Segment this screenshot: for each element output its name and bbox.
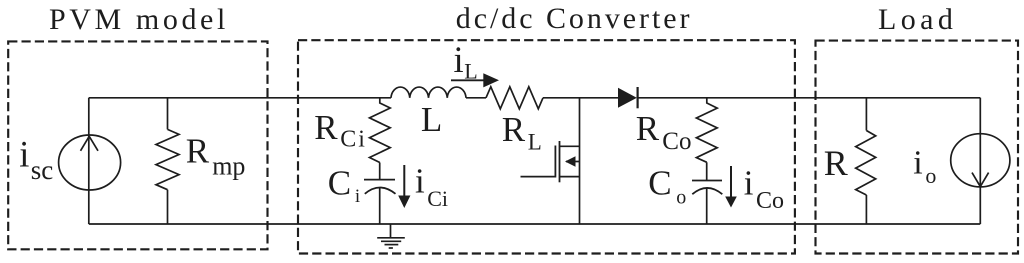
svg-text:Co: Co (756, 188, 784, 214)
svg-text:L: L (421, 100, 442, 139)
svg-text:Ci: Ci (427, 186, 448, 211)
svg-text:Co: Co (662, 128, 691, 155)
svg-text:sc: sc (31, 155, 54, 185)
svg-text:R: R (824, 143, 848, 183)
svg-text:R: R (636, 109, 660, 148)
svg-text:i: i (415, 162, 425, 201)
svg-text:Load: Load (878, 3, 957, 36)
svg-text:R: R (502, 110, 526, 149)
svg-text:i: i (355, 186, 360, 207)
svg-text:i: i (744, 164, 754, 203)
svg-text:i: i (19, 134, 29, 175)
svg-text:i: i (913, 145, 922, 182)
svg-text:C: C (328, 164, 351, 203)
svg-text:R: R (314, 108, 338, 147)
svg-text:dc/dc Converter: dc/dc Converter (456, 2, 693, 35)
svg-text:mp: mp (212, 152, 245, 181)
svg-text:o: o (925, 163, 936, 188)
svg-text:R: R (186, 132, 210, 171)
svg-text:Ci: Ci (340, 127, 367, 153)
svg-text:C: C (648, 164, 671, 203)
svg-text:o: o (676, 187, 686, 209)
svg-text:L: L (528, 129, 542, 154)
svg-text:L: L (464, 59, 477, 84)
svg-text:PVM model: PVM model (49, 3, 229, 36)
svg-text:i: i (454, 39, 464, 80)
